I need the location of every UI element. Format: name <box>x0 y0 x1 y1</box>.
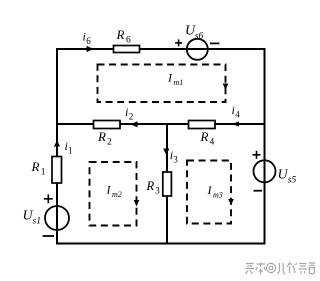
current arrow i1 <box>54 141 60 147</box>
plus sign U_s5 <box>253 151 261 159</box>
wire bottom <box>56 243 266 245</box>
watermark <box>246 262 316 274</box>
svg-text:s6: s6 <box>195 32 204 42</box>
svg-text:R: R <box>97 129 106 144</box>
svg-text:m2: m2 <box>112 190 122 199</box>
resistor R2 <box>94 121 121 129</box>
resistor R3 <box>163 172 172 196</box>
mesh arrow Im1 <box>223 84 229 91</box>
svg-text:I: I <box>106 183 112 197</box>
plus sign U_s1 <box>44 194 53 203</box>
svg-text:3: 3 <box>155 185 160 195</box>
svg-text:R: R <box>116 27 125 42</box>
svg-text:2: 2 <box>129 112 134 122</box>
minus sign U_s1 <box>43 235 55 237</box>
plus sign U_s6 <box>175 39 182 46</box>
svg-text:1: 1 <box>41 168 46 178</box>
voltage source U_s1 <box>45 206 69 230</box>
current arrow i2 <box>131 121 138 127</box>
wire top <box>57 48 265 50</box>
svg-text:4: 4 <box>210 138 215 148</box>
resistor R1 <box>52 157 62 184</box>
wire middle vertical (R3 branch) <box>166 124 168 244</box>
svg-text:I: I <box>167 71 173 85</box>
svg-text:m1: m1 <box>174 78 184 87</box>
current arrow i3 <box>163 149 169 156</box>
svg-text:I: I <box>207 183 213 197</box>
resistor R4 <box>189 121 216 129</box>
mesh current Im2 dashed loop <box>90 162 137 226</box>
current arrow i6 <box>87 46 94 52</box>
svg-text:m3: m3 <box>213 190 223 199</box>
svg-text:6: 6 <box>86 36 91 46</box>
current arrow i4 <box>232 121 239 126</box>
svg-text:3: 3 <box>173 155 178 165</box>
svg-text:s1: s1 <box>33 217 41 227</box>
resistor R6 <box>114 46 140 53</box>
svg-text:1: 1 <box>68 146 73 156</box>
svg-text:4: 4 <box>235 110 240 120</box>
mesh current Im1 dashed loop <box>98 65 226 103</box>
svg-text:R: R <box>200 129 209 144</box>
voltage source U_s6 <box>187 39 208 60</box>
svg-text:s5: s5 <box>288 176 297 186</box>
wire middle horizontal <box>57 123 265 125</box>
minus sign U_s6 <box>210 42 219 44</box>
voltage source U_s5 <box>254 160 276 182</box>
mesh arrow Im3 <box>228 199 234 206</box>
svg-text:R: R <box>31 159 40 174</box>
svg-text:R: R <box>146 179 155 193</box>
wire left <box>56 48 58 245</box>
mesh current Im3 dashed loop <box>187 161 231 224</box>
svg-text:6: 6 <box>126 36 131 46</box>
minus sign U_s5 <box>254 190 263 192</box>
svg-text:2: 2 <box>107 138 112 148</box>
mesh arrow Im2 <box>134 200 140 207</box>
wire right <box>264 48 266 245</box>
